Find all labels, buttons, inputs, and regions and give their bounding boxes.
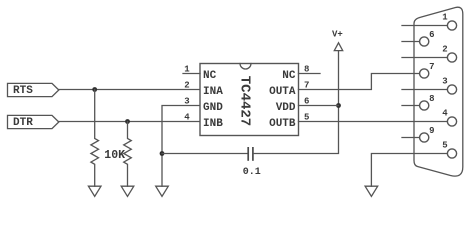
- svg-text:OUTB: OUTB: [269, 118, 296, 130]
- junction capacitor left at GND line: [160, 151, 165, 156]
- ground under R2: [121, 186, 134, 196]
- IC pin 8 stub NC: [299, 64, 321, 74]
- wire OUTA to DB9 pin 7: [299, 74, 420, 90]
- svg-text:DTR: DTR: [13, 117, 33, 129]
- wire IC pin 3 GND down: [162, 106, 200, 187]
- svg-text:INA: INA: [203, 86, 223, 98]
- svg-text:6: 6: [429, 30, 434, 40]
- svg-text:OUTA: OUTA: [269, 86, 296, 98]
- power symbol V+: [332, 30, 343, 51]
- svg-text:4: 4: [184, 112, 190, 122]
- svg-text:GND: GND: [203, 102, 223, 114]
- svg-text:5: 5: [442, 141, 447, 151]
- svg-text:NC: NC: [282, 70, 296, 82]
- svg-text:NC: NC: [203, 70, 217, 82]
- wire DB9 pin 5 to ground: [371, 154, 447, 187]
- wire capacitor left: [162, 153, 248, 155]
- wire OUTB to DB9 pin 4: [299, 121, 448, 123]
- capacitor C1: [248, 147, 253, 161]
- svg-text:1: 1: [442, 13, 448, 23]
- svg-text:3: 3: [184, 96, 189, 106]
- svg-text:0.1: 0.1: [243, 167, 261, 178]
- svg-text:2: 2: [442, 45, 447, 55]
- svg-text:8: 8: [304, 64, 309, 74]
- ground under R1: [88, 186, 101, 196]
- svg-text:4: 4: [442, 109, 448, 119]
- wire RTS to IC pin 2 INA: [59, 89, 200, 91]
- net label DTR flag: [8, 115, 59, 128]
- svg-text:RTS: RTS: [13, 85, 33, 97]
- ground bottom right: [365, 186, 378, 196]
- ground under GND line: [156, 186, 169, 196]
- svg-text:5: 5: [304, 112, 309, 122]
- svg-text:TC4427: TC4427: [237, 76, 253, 126]
- svg-text:VDD: VDD: [276, 102, 296, 114]
- connector J1 DB9 shell: [414, 7, 463, 176]
- DB9 pin 3: [402, 77, 457, 94]
- svg-text:7: 7: [429, 62, 434, 72]
- wire DTR to IC pin 4 INB: [59, 121, 200, 123]
- svg-text:10K: 10K: [104, 149, 125, 162]
- svg-text:9: 9: [429, 126, 434, 136]
- DB9 pin 9: [402, 126, 435, 142]
- resistor R1 10K: [91, 90, 99, 187]
- op-amp U1 TC4427 body: [200, 64, 299, 136]
- svg-text:INB: INB: [203, 118, 223, 130]
- svg-text:3: 3: [442, 77, 447, 87]
- DB9 pin 5: [442, 141, 456, 158]
- wire VDD to V+: [299, 105, 339, 107]
- DB9 pin 4: [442, 109, 456, 126]
- svg-text:2: 2: [184, 80, 189, 90]
- DB9 pin 1: [402, 13, 457, 30]
- DB9 pin 8: [402, 94, 435, 110]
- DB9 pin 2: [402, 45, 457, 62]
- DB9 pin 6: [402, 30, 435, 46]
- svg-text:7: 7: [304, 80, 309, 90]
- svg-text:8: 8: [429, 94, 434, 104]
- resistor R2 10K: [124, 122, 132, 187]
- net label RTS flag: [8, 83, 59, 97]
- svg-text:1: 1: [184, 64, 190, 74]
- junction R2 top: [125, 119, 130, 124]
- svg-text:V+: V+: [332, 30, 343, 40]
- junction VDD / V+: [336, 103, 341, 108]
- DB9 pin 7: [420, 62, 435, 78]
- svg-text:6: 6: [304, 96, 309, 106]
- junction R1 top: [92, 87, 97, 92]
- IC pin 1 stub: [183, 64, 200, 74]
- wire capacitor right to V+ line: [254, 51, 339, 154]
